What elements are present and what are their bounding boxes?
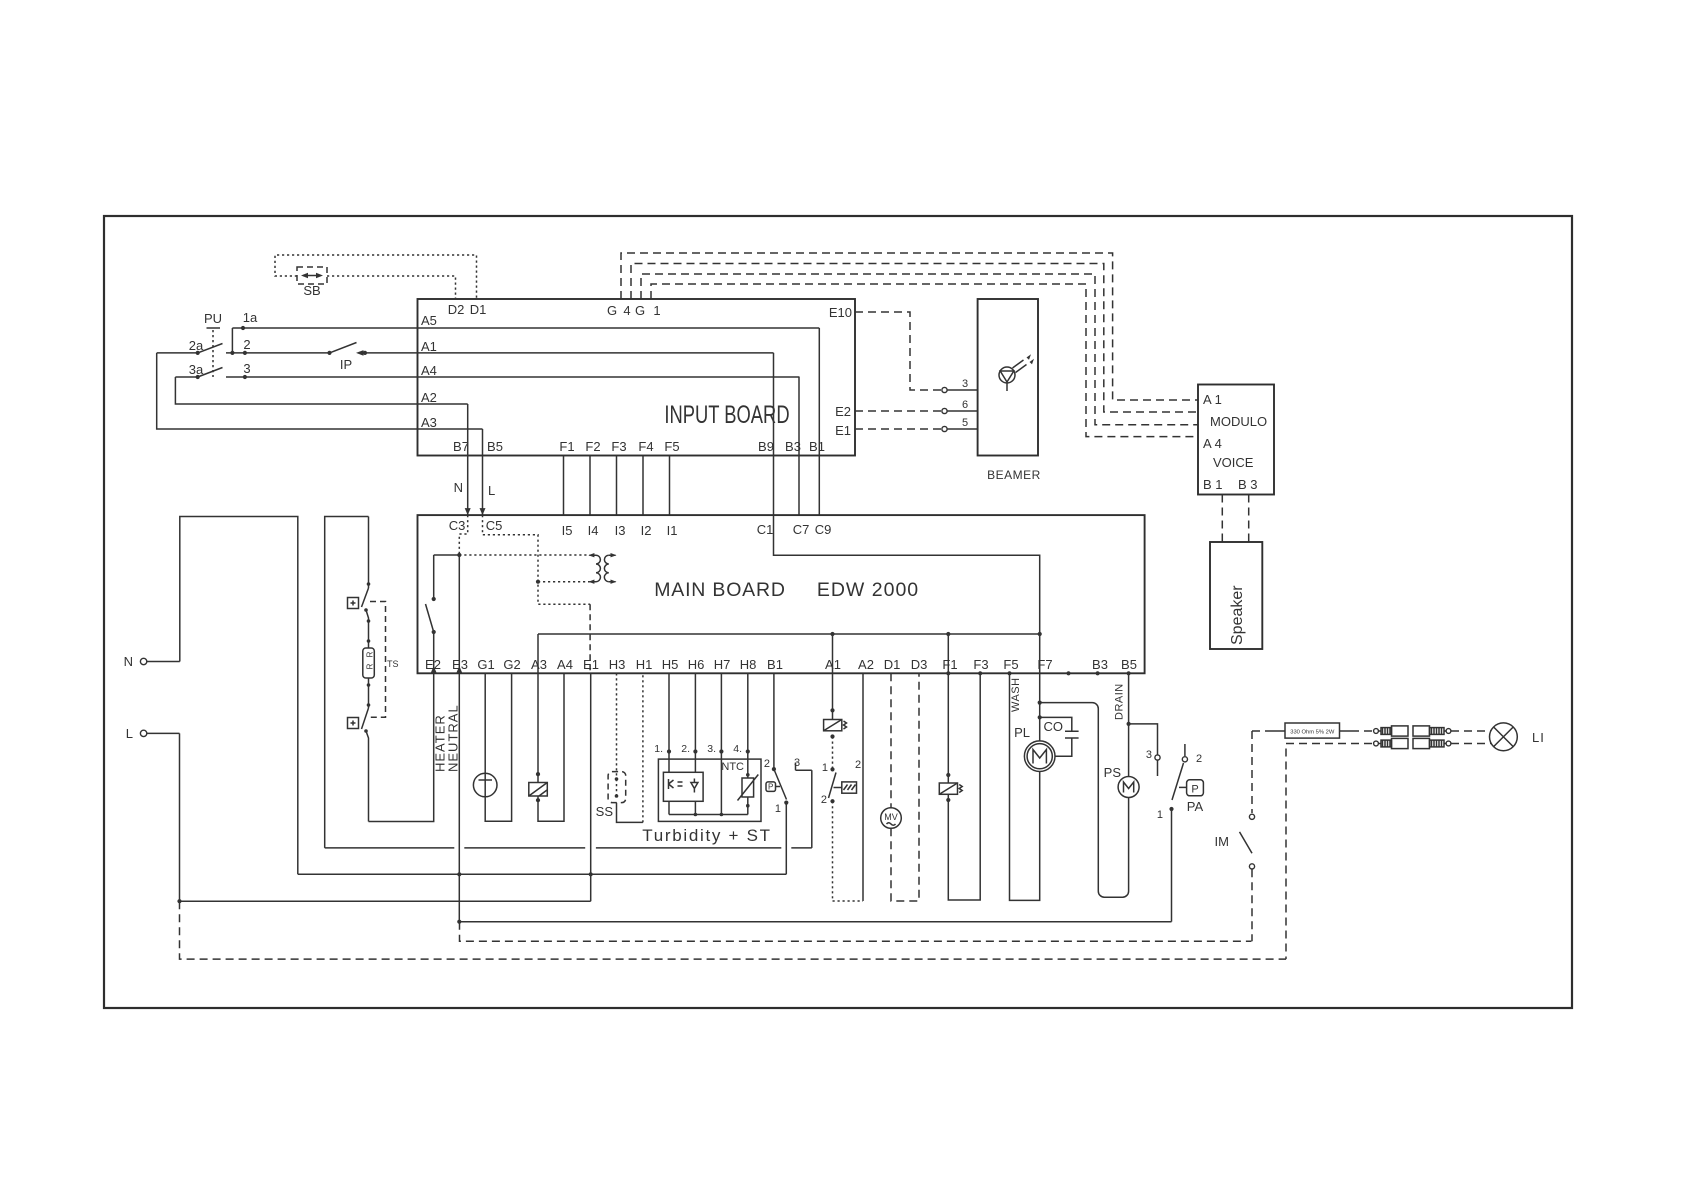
svg-text:F3: F3 — [973, 657, 988, 672]
node bus-A1 — [830, 632, 834, 636]
svg-text:C5: C5 — [486, 518, 503, 533]
svg-text:D1: D1 — [470, 302, 487, 317]
switch IP — [330, 343, 364, 373]
svg-text:1.: 1. — [654, 743, 663, 755]
wire F3 to I3 — [616, 456, 618, 516]
svg-text:1a: 1a — [243, 310, 258, 325]
contact 3 of float switch — [1146, 749, 1160, 776]
svg-text:2: 2 — [1196, 753, 1202, 765]
svg-text:A4: A4 — [421, 363, 437, 378]
switch DB contacts 1-2 on A1 — [821, 737, 861, 807]
wire F5 to I1 — [669, 456, 671, 516]
svg-text:G: G — [635, 303, 645, 318]
svg-text:R: R — [366, 663, 375, 669]
svg-text:B5: B5 — [487, 439, 503, 454]
wire PL to F5 loop — [1010, 673, 1040, 900]
svg-text:B1: B1 — [809, 439, 825, 454]
svg-text:2: 2 — [821, 794, 827, 806]
contact 3 stub of pressure switch — [794, 757, 812, 770]
wire dotted C5 to E1 inside board — [483, 515, 591, 604]
svg-text:I1: I1 — [667, 523, 678, 538]
switch IM — [1215, 731, 1255, 941]
wire E2 to beamer pin 6 — [855, 399, 978, 414]
wire A1 riser from bus — [832, 634, 834, 673]
svg-text:F2: F2 — [585, 439, 600, 454]
wire dotted C3 jog inside board — [459, 515, 467, 555]
capacitor CO across PL — [1040, 717, 1079, 756]
module BEAMER — [978, 299, 1041, 482]
wire contact1 to neutral bus — [785, 803, 787, 875]
svg-text:VOICE: VOICE — [1213, 455, 1254, 470]
svg-text:L: L — [488, 483, 495, 498]
svg-text:1: 1 — [775, 803, 781, 815]
svg-text:Speaker: Speaker — [1229, 585, 1246, 645]
svg-text:5: 5 — [962, 417, 968, 429]
svg-text:G2: G2 — [503, 657, 520, 672]
svg-text:A3: A3 — [421, 415, 437, 430]
svg-text:E10: E10 — [829, 305, 852, 320]
svg-text:H8: H8 — [740, 657, 757, 672]
wire branch to contact 3 — [1129, 724, 1158, 755]
svg-text:INPUT BOARD: INPUT BOARD — [664, 400, 789, 428]
svg-text:A3: A3 — [531, 657, 547, 672]
svg-text:B3: B3 — [1092, 657, 1108, 672]
main board top pin labels C3 C5 I5-I1 C1 C7 C9 — [449, 518, 832, 538]
wire B1 riser and to C9 — [818, 328, 820, 515]
svg-text:330 Ohm 5% 2W: 330 Ohm 5% 2W — [1290, 729, 1335, 735]
wire A2 column — [862, 673, 864, 901]
svg-text:H7: H7 — [714, 657, 731, 672]
wire dashed L to lamp return — [180, 901, 1287, 959]
svg-text:IP: IP — [340, 357, 352, 372]
valve on A3 — [529, 673, 548, 802]
svg-text:A4: A4 — [557, 657, 573, 672]
svg-text:PL: PL — [1014, 725, 1030, 740]
wire E1 column — [590, 673, 592, 901]
input board top pin labels G 4 G 1 — [607, 303, 661, 318]
svg-text:3: 3 — [1146, 749, 1152, 761]
wire E2 riser and relay switch inside board — [426, 555, 460, 673]
svg-text:H3: H3 — [609, 657, 626, 672]
wire N loop to neutral bus — [180, 517, 298, 875]
svg-text:PU: PU — [204, 311, 222, 326]
svg-text:B 1: B 1 — [1203, 477, 1223, 492]
wire 1a row to A5 and through to B1 riser — [230, 310, 819, 355]
wire dotted tap to transformer primary bottom — [538, 581, 589, 583]
input board right pin labels E10 E2 E1 — [829, 305, 852, 438]
svg-text:IM: IM — [1215, 834, 1229, 849]
wire dashed E3bus to IM — [460, 922, 1252, 942]
pressure sensor box P of PA — [1179, 780, 1204, 814]
svg-text:I2: I2 — [641, 523, 652, 538]
svg-text:2: 2 — [855, 759, 861, 771]
transformer T1 — [588, 553, 616, 584]
terminal L — [126, 726, 180, 741]
wire dashed E1 drop inside board — [589, 604, 591, 673]
svg-text:3.: 3. — [707, 743, 716, 755]
svg-text:MODULO: MODULO — [1210, 414, 1267, 429]
svg-text:G1: G1 — [477, 657, 494, 672]
svg-text:BEAMER: BEAMER — [987, 468, 1041, 482]
svg-text:B9: B9 — [758, 439, 774, 454]
switch PA contacts 2-1 — [1157, 744, 1202, 821]
resistor 330 Ohm 5% 2W — [1272, 723, 1352, 738]
node edge spare — [1066, 671, 1070, 675]
svg-text:P: P — [768, 783, 773, 792]
svg-text:MAIN BOARD: MAIN BOARD — [654, 579, 786, 601]
wire C1 through path to F7 — [774, 515, 1040, 673]
wire B5 to C5 — [480, 429, 496, 515]
wire row 3/A4 — [175, 361, 799, 379]
wire dotted junction to transformer primary top — [459, 554, 589, 556]
svg-text:CO: CO — [1044, 719, 1064, 734]
wire row 2/A1 with switch IP — [157, 337, 774, 355]
node bus-F7 — [1038, 632, 1042, 636]
wire internal bus A3 to F7 — [538, 634, 1040, 673]
wire H3-H1 loop — [617, 673, 643, 822]
wire bottom bus E3 to PA — [457, 920, 1171, 924]
svg-text:D2: D2 — [448, 302, 465, 317]
node F5 edge — [1007, 671, 1011, 675]
svg-text:F1: F1 — [559, 439, 574, 454]
svg-text:4.: 4. — [733, 743, 742, 755]
svg-text:H1: H1 — [636, 657, 653, 672]
svg-text:B 3: B 3 — [1238, 477, 1258, 492]
wire dashed resistor to connectors — [1351, 730, 1372, 732]
wire F1 riser from bus — [947, 634, 949, 673]
svg-text:C1: C1 — [757, 522, 774, 537]
speaker SP1 — [1210, 542, 1262, 649]
svg-text:TS: TS — [387, 659, 399, 669]
motor MV on D1 — [881, 673, 902, 828]
svg-text:C3: C3 — [449, 518, 466, 533]
svg-text:1: 1 — [653, 303, 660, 318]
wire dashed G-bus 2 — [631, 264, 1198, 413]
svg-text:A1: A1 — [421, 339, 437, 354]
wire F7 column with branch nodes — [1038, 673, 1042, 741]
svg-text:PS: PS — [1104, 765, 1122, 780]
wire dashed IM top to resistor — [1252, 730, 1272, 732]
svg-text:H6: H6 — [688, 657, 705, 672]
svg-text:F1: F1 — [942, 657, 957, 672]
input board top pin labels D2 D1 — [448, 302, 487, 317]
motor PL wash pump — [1014, 725, 1055, 772]
svg-text:I3: I3 — [615, 523, 626, 538]
svg-text:PA: PA — [1187, 799, 1204, 814]
wire B9 riser and to C1 — [773, 353, 775, 515]
svg-text:A 1: A 1 — [1203, 392, 1222, 407]
pin arrows E2 E3 at board edge — [431, 666, 463, 673]
wire 3a loop to A2 row — [175, 377, 467, 404]
valve EV on F1 — [939, 673, 962, 802]
wire dashed G-bus 1 to MODULO A1 — [621, 253, 1198, 400]
wire dashed MODULO B1 to speaker — [1221, 495, 1223, 543]
pressure sensor box P — [766, 782, 780, 792]
node bus-F1 — [946, 632, 950, 636]
wire heater loop left — [325, 517, 369, 848]
turbidity terminal 3 on H7 — [707, 673, 723, 814]
svg-text:SB: SB — [303, 283, 320, 298]
wire E1 to beamer pin 5 — [855, 417, 978, 432]
valve EV on A1 — [824, 673, 847, 738]
turbidity sensor unit Turbidity + ST — [642, 759, 771, 845]
svg-text:B1: B1 — [767, 657, 783, 672]
svg-text:3: 3 — [243, 361, 250, 376]
svg-text:Turbidity + ST: Turbidity + ST — [642, 826, 771, 845]
svg-text:MV: MV — [884, 812, 898, 822]
svg-text:NEUTRAL: NEUTRAL — [446, 704, 461, 772]
svg-text:LI: LI — [1532, 730, 1545, 745]
wire F4 to I2 — [642, 456, 644, 516]
wire F7 branch to drain pump return — [1040, 703, 1129, 898]
wire B3 riser and to C7 — [798, 377, 800, 516]
wire PA-1 to bottom bus — [1171, 809, 1173, 922]
wire dashed to lamp upper — [1451, 730, 1491, 732]
terminal N — [124, 654, 180, 669]
svg-text:R: R — [366, 651, 375, 657]
wire SB dotted to D1 — [275, 255, 477, 299]
svg-text:A2: A2 — [858, 657, 874, 672]
input board U1 — [418, 299, 856, 456]
connector SB — [297, 267, 327, 298]
indicator lamp on G1 — [473, 673, 497, 797]
node F1 edge — [946, 671, 950, 675]
svg-text:DRAIN: DRAIN — [1114, 683, 1126, 720]
pressure switch on B1 contacts 2-1-3 — [764, 673, 789, 815]
svg-text:A 4: A 4 — [1203, 436, 1222, 451]
svg-text:A2: A2 — [421, 390, 437, 405]
wire F1 to I5 — [563, 456, 565, 516]
svg-text:I5: I5 — [562, 523, 573, 538]
svg-text:C7: C7 — [793, 522, 810, 537]
switch SS on H3 — [596, 673, 626, 819]
wire heater line across bottom — [325, 847, 812, 849]
node C5 transformer tap — [536, 580, 540, 584]
turbidity terminal 1 on H5 — [654, 673, 671, 772]
wire E3 neutral column — [458, 673, 460, 921]
wire dashed G-bus 4 to MODULO A4 — [651, 284, 1198, 437]
wire dashed G-bus 3 — [641, 274, 1198, 425]
main board U2 — [418, 515, 1145, 673]
lamp inside beamer — [999, 354, 1034, 391]
wire B5 drain column — [1127, 673, 1131, 776]
wire G1-G2 loop — [485, 673, 511, 821]
wire E10 to beamer pin 3 — [855, 312, 978, 393]
svg-text:F5: F5 — [1003, 657, 1018, 672]
switch 3a — [189, 362, 223, 379]
svg-text:A5: A5 — [421, 313, 437, 328]
wire 2a loop to A3 row — [157, 353, 483, 429]
wire dashed D1-D3 loop — [891, 673, 919, 901]
svg-text:G: G — [607, 303, 617, 318]
svg-text:L: L — [126, 726, 133, 741]
svg-text:I4: I4 — [588, 523, 599, 538]
turbidity terminal 2 on H6 — [681, 673, 697, 772]
svg-text:E1: E1 — [583, 657, 599, 672]
wire neutral bus — [298, 872, 787, 876]
wire B7 to C3 — [454, 404, 471, 515]
svg-text:SS: SS — [596, 804, 614, 819]
input board left pin labels A5 A1 A4 A2 A3 — [421, 313, 437, 430]
wire heater chain to E2 pin — [369, 673, 434, 821]
wire E3 riser inside board — [458, 555, 460, 673]
svg-text:EDW 2000: EDW 2000 — [817, 579, 919, 601]
wire dotted A1 to A2 loop — [833, 801, 864, 901]
svg-text:B7: B7 — [453, 439, 469, 454]
input board bottom pin labels B7 B5 F1-F5 B9 B3 B1 — [453, 439, 825, 454]
wire F1-F3 loop — [948, 673, 980, 900]
svg-text:E1: E1 — [835, 423, 851, 438]
heater chain R with thermal cutouts TS — [348, 517, 375, 822]
svg-text:NTC: NTC — [721, 761, 744, 773]
svg-text:4: 4 — [623, 303, 630, 318]
wire dashed lamp lower return — [1286, 744, 1491, 960]
opto sensor box inside turbidity — [663, 772, 703, 814]
svg-text:1: 1 — [1157, 809, 1163, 821]
svg-text:2: 2 — [764, 758, 770, 770]
svg-text:2.: 2. — [681, 743, 690, 755]
svg-text:P: P — [1191, 784, 1198, 796]
svg-text:B5: B5 — [1121, 657, 1137, 672]
svg-text:N: N — [124, 654, 133, 669]
node C3-E3 junction — [457, 553, 461, 557]
node B5 edge — [1127, 671, 1131, 675]
wire F2 to I4 — [589, 456, 591, 516]
main board bottom pin labels — [425, 657, 1137, 672]
node F3 edge — [978, 671, 982, 675]
svg-text:F4: F4 — [638, 439, 653, 454]
svg-text:6: 6 — [962, 399, 968, 411]
svg-text:N: N — [454, 480, 463, 495]
node B3 edge — [1096, 671, 1100, 675]
node L dashed branch — [177, 899, 181, 903]
svg-text:3: 3 — [962, 378, 968, 390]
svg-text:E2: E2 — [835, 404, 851, 419]
svg-text:1: 1 — [822, 762, 828, 774]
motor PS drain pump — [1104, 765, 1139, 798]
svg-text:F3: F3 — [611, 439, 626, 454]
turbidity terminal 4 on H8 — [733, 673, 750, 778]
switch PU label and linkage — [204, 311, 222, 377]
wire A3-A4 loop — [538, 673, 564, 821]
wire SB dotted to D2 — [327, 276, 456, 299]
connector pair lower — [1374, 738, 1451, 748]
turbidity internal common bus — [669, 813, 748, 817]
dashed TS linkage — [370, 602, 399, 718]
svg-text:D3: D3 — [911, 657, 928, 672]
wire dashed MODULO B3 to speaker — [1248, 495, 1250, 543]
switch 2a — [189, 338, 223, 355]
lamp LI — [1490, 723, 1545, 751]
wire L to E1 line — [180, 733, 591, 901]
module MODULO VOICE — [1198, 385, 1274, 495]
svg-text:2: 2 — [243, 337, 250, 352]
svg-text:F5: F5 — [664, 439, 679, 454]
svg-text:WASH: WASH — [1010, 677, 1022, 712]
svg-text:H5: H5 — [662, 657, 679, 672]
svg-text:D1: D1 — [884, 657, 901, 672]
connector pair upper — [1374, 726, 1451, 736]
svg-text:C9: C9 — [815, 522, 832, 537]
wire contact3 to heater line — [811, 770, 813, 848]
thermistor NTC on H8 — [721, 761, 758, 815]
